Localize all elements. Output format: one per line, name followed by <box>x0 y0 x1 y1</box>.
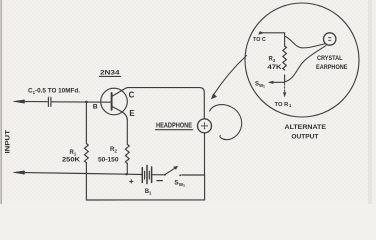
collector lead <box>112 88 128 97</box>
node: base junction <box>85 101 88 104</box>
svg-text:ALTERNATE: ALTERNATE <box>285 124 327 131</box>
svg-text:50-150: 50-150 <box>98 157 119 164</box>
wire: TO C to R3 <box>260 33 285 46</box>
wire: input middle rail <box>16 172 142 174</box>
resistor R2 <box>125 144 129 163</box>
svg-text:E: E <box>129 109 134 118</box>
label CRYSTAL EARPHONE <box>316 55 348 71</box>
node: R2 bottom junction <box>125 173 127 175</box>
svg-text:250K: 250K <box>62 157 81 164</box>
pointer arrow from inset <box>214 56 246 94</box>
svg-text:OUTPUT: OUTPUT <box>291 133 318 140</box>
svg-text:TO C: TO C <box>253 37 267 43</box>
page scan edge <box>0 0 2 204</box>
wire: collector rail to right <box>128 88 204 119</box>
label R3 <box>268 57 283 72</box>
label ALTERNATE OUTPUT <box>285 124 327 141</box>
wire: R3 bottom <box>284 75 286 82</box>
svg-text:TO R: TO R <box>275 102 290 108</box>
wire: jack bottom to middle rail <box>204 133 206 175</box>
svg-text:R3: R3 <box>269 57 276 63</box>
wire: top rail after C1 to base <box>52 101 112 103</box>
svg-text:CRYSTAL: CRYSTAL <box>317 55 343 62</box>
wire: R2 to middle rail <box>126 164 128 175</box>
inset circle <box>245 3 359 117</box>
label SW1 inset <box>255 82 265 89</box>
battery B1 <box>141 168 143 183</box>
svg-text:1: 1 <box>263 85 265 89</box>
wire: switch to right rail <box>182 174 205 176</box>
label TO R1 <box>275 102 293 108</box>
svg-text:B: B <box>93 103 98 110</box>
wire: right rail to bottom rail <box>204 175 206 200</box>
svg-text:C1-0.5 TO 10MFd.: C1-0.5 TO 10MFd. <box>28 89 80 95</box>
wire: squiggle top lead <box>285 36 325 48</box>
label R2 <box>98 146 119 164</box>
input arrow top <box>14 100 25 103</box>
wire: input top rail <box>16 100 47 102</box>
resistor R3 <box>283 46 287 70</box>
transistor Q1 2N34 <box>101 88 128 115</box>
input arrow bottom <box>14 171 25 174</box>
svg-text:EARPHONE: EARPHONE <box>316 64 348 71</box>
capacitor C1 <box>47 97 49 106</box>
svg-text:C: C <box>129 91 135 100</box>
svg-text:INPUT: INPUT <box>5 130 12 154</box>
curled arrow at jack <box>210 105 242 140</box>
wire: emitter down to R2 <box>126 120 128 145</box>
label R1 <box>62 150 81 164</box>
base bar <box>111 93 113 110</box>
wire: junction down to R1 <box>85 102 87 144</box>
svg-text:2N34: 2N34 <box>100 70 120 77</box>
switch SW1 <box>164 174 166 176</box>
svg-text:+: + <box>129 176 134 186</box>
wire+arrow to SW1 label <box>271 81 285 83</box>
label - <box>157 180 162 182</box>
wire: dashed to TO R1 <box>284 84 286 93</box>
wire: R1 to bottom rail <box>85 163 87 200</box>
wire: squiggle bottom lead <box>285 46 326 82</box>
resistor R1 <box>85 144 89 163</box>
svg-text:1: 1 <box>183 184 185 188</box>
emitter lead <box>112 106 128 120</box>
svg-text:B1: B1 <box>145 189 152 195</box>
wire: battery to switch <box>152 174 165 176</box>
label C1 value <box>28 89 80 95</box>
label 2N34 <box>100 70 120 77</box>
wire: bottom rail <box>86 199 204 201</box>
svg-text:HEADPHONE: HEADPHONE <box>156 122 192 129</box>
crystal earphone <box>324 33 336 45</box>
headphone jack J1 <box>198 119 212 133</box>
label SW1 <box>174 180 185 188</box>
svg-text:R1: R1 <box>70 150 77 156</box>
svg-text:47K: 47K <box>268 64 283 71</box>
